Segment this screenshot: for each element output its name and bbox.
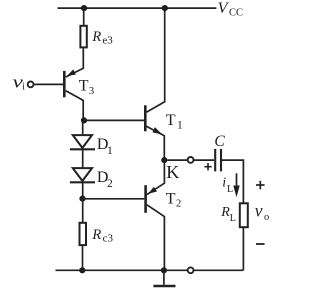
resistor Re3 xyxy=(80,26,86,48)
node junction top-right xyxy=(162,5,168,11)
label Re3 xyxy=(91,29,113,47)
label D2 xyxy=(97,169,113,190)
label + output polarity xyxy=(256,181,265,190)
label T3 xyxy=(79,78,94,97)
wire bottom rail right xyxy=(194,269,244,271)
label T1 xyxy=(166,112,183,132)
label C xyxy=(214,133,225,150)
svg-text:L: L xyxy=(230,213,236,224)
resistor RL xyxy=(240,203,248,227)
svg-text:1: 1 xyxy=(107,145,113,157)
svg-text:T: T xyxy=(166,190,176,207)
transistor T3 xyxy=(64,48,83,120)
node junction bottom T2/ground xyxy=(161,267,167,273)
terminal circle bottom output xyxy=(188,267,194,273)
wire Rc3 to bottom rail xyxy=(82,246,84,270)
label K xyxy=(166,162,179,182)
svg-text:v: v xyxy=(255,200,263,220)
svg-text:R: R xyxy=(91,29,101,45)
svg-text:CC: CC xyxy=(229,8,243,19)
svg-text:R: R xyxy=(91,227,101,243)
svg-text:L: L xyxy=(227,184,233,195)
node K junction xyxy=(161,157,167,163)
svg-text:e3: e3 xyxy=(102,34,113,46)
wire Re3 top lead xyxy=(83,8,85,25)
svg-text:2: 2 xyxy=(107,178,113,190)
node junction D2 / T2 base xyxy=(79,196,85,202)
wire junction to D1 xyxy=(82,120,84,135)
terminal circle K output xyxy=(188,157,194,163)
node junction bottom-left xyxy=(79,267,85,273)
transistor T2 xyxy=(146,160,165,270)
label vo xyxy=(255,200,270,223)
terminal vi circle xyxy=(28,82,34,88)
wire RL to bottom rail xyxy=(242,227,244,270)
svg-text:V: V xyxy=(218,0,230,17)
arrow iL current xyxy=(233,173,239,197)
node junction top-left xyxy=(81,5,87,11)
label - output polarity xyxy=(256,243,265,245)
capacitor C xyxy=(215,149,221,172)
diode D1 xyxy=(70,135,95,149)
svg-text:T: T xyxy=(166,112,176,129)
label vi xyxy=(13,73,26,93)
label Rc3 xyxy=(91,227,113,245)
svg-text:i: i xyxy=(22,82,25,93)
label T2 xyxy=(166,190,181,209)
diode D2 xyxy=(70,168,95,182)
label D1 xyxy=(97,136,113,157)
svg-text:1: 1 xyxy=(177,120,183,132)
wire terminal to cap plate xyxy=(194,159,215,161)
svg-text:i: i xyxy=(222,175,226,190)
ground xyxy=(153,270,175,286)
svg-text:3: 3 xyxy=(89,86,94,97)
svg-text:c3: c3 xyxy=(103,233,114,245)
svg-text:T: T xyxy=(79,78,89,95)
wire D2 to junction xyxy=(82,182,84,198)
wire K to coupling cap xyxy=(167,159,187,161)
resistor Rc3 xyxy=(80,223,87,245)
wire bottom rail left xyxy=(56,269,188,271)
label + polarity of cap xyxy=(204,163,211,170)
label VCC xyxy=(218,0,243,19)
wire top VCC rail xyxy=(58,7,217,9)
wire vi to T3 base xyxy=(34,83,64,85)
wire junction to Rc3 xyxy=(82,199,84,223)
transistor T1 xyxy=(145,8,164,160)
svg-text:C: C xyxy=(214,133,225,150)
wire cap to RL branch xyxy=(222,160,243,203)
node junction T3 collector / T1 base xyxy=(81,117,87,123)
label RL xyxy=(220,205,236,224)
wire D1 to D2 xyxy=(82,149,84,168)
svg-text:2: 2 xyxy=(176,199,181,210)
svg-text:o: o xyxy=(264,212,269,223)
label iL xyxy=(222,175,233,195)
wire T1 base xyxy=(84,119,144,121)
wire T2 base xyxy=(83,198,145,200)
svg-text:K: K xyxy=(166,162,179,182)
